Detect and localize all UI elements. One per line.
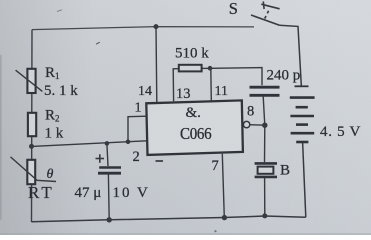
wire: bottom rail xyxy=(32,216,306,222)
wire: 510k right lead to junction then to 240p corner xyxy=(202,68,262,86)
node: pin8 junction xyxy=(262,123,267,128)
capacitor 240p plates xyxy=(250,86,280,89)
node: bottom rail cap junction xyxy=(107,217,112,222)
node: 510k right junction xyxy=(208,66,213,71)
wire: pin 7 vertical xyxy=(222,154,224,218)
capacitor 240p legs xyxy=(263,97,265,126)
capacitor C1 plates xyxy=(99,166,121,169)
node: cap branch xyxy=(105,141,110,146)
pin 8 bubble xyxy=(243,121,249,127)
thermistor RT box xyxy=(27,160,35,184)
wire: left rail xyxy=(31,30,34,222)
wire: pin2 feed horizontal xyxy=(32,141,147,147)
node: top rail junction xyxy=(154,24,159,29)
wire: node down to buzzer B xyxy=(264,125,266,162)
buzzer B bottom plate xyxy=(255,176,277,179)
scan artifact: faint left edge line xyxy=(0,55,2,220)
node: pin1 branch xyxy=(126,140,131,145)
switch S xyxy=(251,1,280,25)
minus mark xyxy=(156,160,164,162)
wire: pin 13 lead up and over to 510k xyxy=(173,69,182,102)
wire: top rail from left corner to switch xyxy=(32,27,254,30)
capacitor C1 47u legs xyxy=(107,143,108,166)
stray speck bottom right xyxy=(214,230,216,232)
buzzer B body xyxy=(258,167,274,174)
scan artifact: faint bottom edge xyxy=(0,233,371,235)
wire: pin 8 to node xyxy=(250,124,265,127)
thermistor RT diagonal with tail xyxy=(11,157,57,182)
resistor R1 diagonal xyxy=(16,70,43,91)
resistor 510k xyxy=(179,65,202,72)
plus sign xyxy=(96,158,105,160)
stray speck top xyxy=(57,10,62,12)
stray speck xyxy=(96,42,100,44)
wire: right rail (switch to battery, battery to bottom) xyxy=(280,25,302,87)
wire: pin 14 vertical xyxy=(155,27,158,102)
node: R2 bottom junction xyxy=(29,144,34,149)
node: bottom rail B junction xyxy=(262,213,267,218)
resistor R2 box xyxy=(28,113,36,136)
wire: pin 11 vertical xyxy=(210,68,213,100)
op-amp U1 C066 box xyxy=(146,100,243,154)
wire: pin1 branch vertical and stub xyxy=(128,116,147,142)
buzzer B top plate xyxy=(255,162,277,165)
wire: buzzer to bottom rail xyxy=(264,178,266,216)
battery GB bars xyxy=(290,86,315,142)
node: bottom rail pin7 junction xyxy=(222,215,227,220)
resistor R1 box xyxy=(27,69,35,93)
